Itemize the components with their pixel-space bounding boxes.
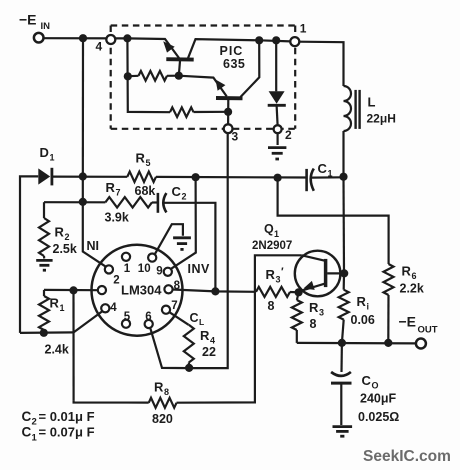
svg-text:1: 1 [274,229,279,239]
svg-text:R: R [200,328,210,343]
svg-text:i: i [367,302,370,312]
svg-text:C: C [362,373,372,388]
svg-text:L: L [368,94,376,109]
svg-text:O: O [372,381,379,391]
svg-text:240μF: 240μF [360,391,397,405]
svg-text:22μH: 22μH [367,111,396,125]
svg-text:4: 4 [110,302,117,314]
svg-text:8: 8 [174,280,181,292]
svg-text:C: C [22,425,32,440]
svg-text:2: 2 [285,128,292,142]
svg-text:2: 2 [182,192,187,202]
svg-text:R: R [136,150,146,165]
svg-text:R: R [154,379,164,394]
svg-text:68k: 68k [135,184,156,198]
svg-text:−E: −E [399,313,417,329]
svg-text:635: 635 [223,57,245,71]
svg-text:1: 1 [50,153,55,163]
svg-text:3: 3 [232,129,239,143]
svg-text:0.025Ω: 0.025Ω [358,410,399,424]
svg-text:PIC: PIC [220,44,244,58]
svg-text:8: 8 [268,299,275,313]
svg-text:NI: NI [87,239,100,253]
svg-text:5: 5 [146,158,151,168]
svg-text:3: 3 [276,275,281,285]
svg-text:3.9k: 3.9k [105,210,129,224]
svg-text:1: 1 [328,169,333,179]
svg-text:C: C [172,184,182,199]
svg-text:5: 5 [124,311,131,323]
svg-text:8: 8 [310,317,317,331]
svg-text:= 0.07μ F: = 0.07μ F [39,425,95,440]
svg-text:R: R [106,180,116,195]
svg-text:1: 1 [60,303,65,313]
svg-text:6: 6 [412,271,417,281]
svg-text:7: 7 [116,188,121,198]
svg-text:IN: IN [41,21,51,32]
svg-text:2: 2 [32,417,37,428]
svg-text:D: D [40,145,49,160]
svg-text:R: R [50,296,60,311]
svg-text:= 0.01μ F: = 0.01μ F [39,409,95,424]
svg-text:9: 9 [156,265,162,277]
svg-text:2: 2 [65,232,70,242]
svg-text:820: 820 [152,412,173,426]
svg-text:INV: INV [188,262,211,276]
svg-text:R: R [309,300,319,315]
svg-text:Q: Q [264,222,274,236]
svg-text:C: C [190,311,199,325]
svg-text:SeekIC.com: SeekIC.com [363,448,451,465]
svg-text:8: 8 [164,387,169,397]
svg-text:R: R [55,224,65,239]
svg-text:C: C [318,161,328,176]
svg-text:6: 6 [145,311,151,323]
svg-text:R: R [402,264,412,279]
svg-text:−E: −E [19,12,37,28]
svg-text:R: R [266,267,276,282]
svg-text:0.06: 0.06 [351,313,375,327]
svg-text:C: C [22,409,32,424]
svg-text:′: ′ [281,266,284,278]
svg-text:4: 4 [96,40,103,54]
svg-text:10: 10 [138,263,151,275]
svg-text:2.2k: 2.2k [400,281,424,295]
svg-text:2: 2 [113,274,119,286]
svg-text:R: R [357,294,367,309]
svg-text:LM304: LM304 [121,283,162,298]
svg-text:7: 7 [171,300,177,312]
svg-text:2.4k: 2.4k [45,343,69,357]
svg-text:1: 1 [124,263,131,275]
svg-text:22: 22 [202,345,216,359]
svg-text:2.5k: 2.5k [53,242,77,256]
svg-text:1: 1 [300,21,307,35]
svg-text:1: 1 [32,432,38,443]
svg-text:3: 3 [319,308,324,318]
svg-text:L: L [199,317,204,327]
svg-text:4: 4 [210,336,215,346]
svg-text:OUT: OUT [418,325,438,336]
svg-text:2N2907: 2N2907 [252,240,292,252]
